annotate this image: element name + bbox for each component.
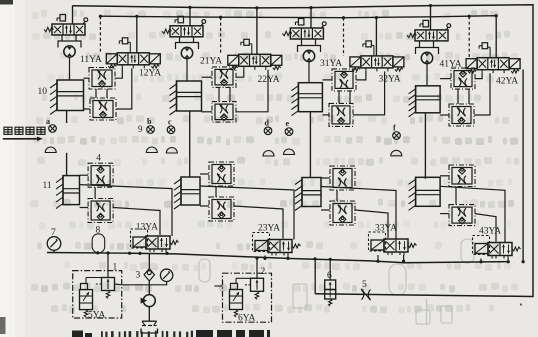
roller lever of valve V30 (321, 25, 324, 28)
caption figure number fragment (72, 331, 83, 337)
suction filter (142, 320, 157, 322)
wire drop to valve group 3 (310, 8, 312, 28)
cylinder cyl2l (181, 177, 200, 205)
svg-text:11YA: 11YA (80, 55, 102, 65)
wire cyl port top 2 (200, 173, 209, 175)
port stubs of valve 13YA (149, 249, 151, 252)
test point f (393, 132, 401, 140)
svg-text:12YA: 12YA (139, 69, 161, 79)
input arrow (3, 138, 37, 140)
right solenoid of valve 11/12YA (149, 54, 160, 64)
one-way throttle valve TB4c (449, 165, 475, 187)
wire between throttles 3l (336, 190, 338, 201)
dashed pilot box of valve 33YA (369, 232, 386, 251)
wire throttle to valve 1 (113, 208, 160, 236)
dashed pilot wire (220, 17, 222, 54)
wire cyl port top 4 (440, 175, 449, 177)
wire between throttles 4l (455, 187, 457, 205)
unloading valve group 1 box (73, 271, 122, 318)
wire group2 left stub (215, 285, 223, 287)
wire accumulator stub (98, 252, 100, 254)
right solenoid of valve 31/32YA (393, 57, 404, 67)
svg-text:32YA: 32YA (379, 75, 401, 85)
wire drop to valve group 1 (72, 6, 74, 25)
drill unit dome (166, 148, 177, 154)
hydraulic motor M4 (421, 52, 432, 63)
wire between throttles 1 (95, 89, 97, 98)
test point b (147, 126, 155, 134)
wire cylinder to valve 4 (440, 186, 505, 242)
wire throttle2 to cylinder 2 (202, 111, 213, 113)
dashed pilot box of valve 43YA (473, 236, 490, 255)
piston rod station 1 (66, 111, 68, 124)
one-way throttle valve TB2b (212, 102, 236, 123)
spring of valve V20 (162, 29, 172, 33)
spring of valve V30 (282, 31, 292, 35)
bracket of M2 (179, 37, 181, 43)
spindle line station 1 (69, 57, 71, 80)
wire throttle2 to cylinder 4 (440, 114, 449, 116)
wire throttle1 to cylinder 1 (84, 77, 90, 79)
solenoid valve 6YA (230, 290, 243, 310)
spring of valve 33YA (408, 244, 417, 248)
caption stroke fragments (101, 331, 103, 337)
check valve 3 (144, 269, 154, 281)
wire bottom bus (47, 253, 509, 263)
cylinder cyl4l (416, 177, 441, 206)
spring of valve 23YA (292, 244, 301, 248)
valve drops to bus 4 (480, 259, 482, 262)
solenoid valve 5YA (80, 290, 93, 310)
wire cyl port top 1 (80, 174, 89, 176)
dashed pilot wire (99, 16, 101, 53)
port stubs of valve 33YA (387, 252, 389, 255)
scan artifact bottom-left (0, 317, 6, 334)
right solenoid of valve 41/42YA (509, 59, 520, 69)
svg-text:5: 5 (362, 280, 367, 290)
pilot box above valve 21/22YA (244, 39, 250, 45)
wire cylinder to valve 3 (321, 187, 396, 240)
pilot relief valve in group 2 (251, 278, 264, 291)
cylinder cyl3l (302, 178, 321, 207)
pressure reducing valve 6 (329, 259, 331, 280)
springs of valve 31/32YA (352, 68, 360, 72)
wire cylinder to valve 2 (200, 186, 294, 240)
drill unit dome (45, 147, 56, 153)
port stubs of valve 21/22YA (243, 66, 245, 69)
wire gauge 7 stub (53, 250, 55, 252)
svg-text:13YA: 13YA (136, 223, 158, 233)
wire between throttles 2l (215, 186, 217, 197)
valve 33YA body (384, 239, 408, 252)
wire throttle to valve 3 (353, 71, 385, 115)
one-way throttle valve TB3c (330, 166, 355, 190)
mount hatching of cylinder cyl3l (301, 178, 303, 207)
pilot box V20 (178, 16, 184, 23)
port stubs of valve 31/32YA (365, 68, 367, 71)
svg-text:43YA: 43YA (479, 227, 501, 237)
valve drops to bus 3 (377, 255, 379, 261)
wire throttle to valve 4 (474, 73, 490, 115)
wire throttle to valve 3 (355, 210, 388, 238)
scan artifact top-left (0, 0, 13, 5)
svg-text:d: d (265, 118, 270, 127)
pressure gauge 7 (47, 237, 61, 251)
throttle valve 5 (362, 290, 364, 300)
pilot box V40 (423, 20, 429, 27)
left solenoid of valve 21/22YA (228, 55, 239, 65)
svg-text:c: c (168, 117, 172, 126)
hydraulic motor M3 (303, 50, 314, 61)
one-way throttle valve TB4d (449, 205, 475, 226)
spindle line station 4 (426, 64, 428, 86)
test point d (264, 127, 272, 135)
svg-text:42YA: 42YA (496, 77, 518, 87)
tank symbol (141, 329, 158, 334)
wire group1 output (122, 284, 150, 286)
bracket of M1 (61, 35, 63, 41)
wire cyl port bottom 4 (440, 213, 449, 215)
valve V20 (manual 4/3) (170, 26, 203, 37)
one-way throttle valve TB3d (330, 201, 355, 225)
port stubs of valve 11/12YA (121, 65, 123, 68)
wire solenoid supply drop (256, 8, 258, 54)
relief valve group 2 box (223, 273, 272, 322)
drill unit dome (263, 151, 274, 156)
port stubs of valve 23YA (271, 253, 273, 256)
spring of valve 43YA (512, 247, 521, 251)
spring of valve 13YA (170, 241, 179, 245)
label copper pipe input (blob glyphs) (4, 127, 12, 134)
one-way throttle valve TB1d (88, 199, 113, 223)
springs of valve 11/12YA (108, 65, 116, 69)
mount hatching of cylinder 11 (62, 176, 64, 205)
accumulator 8 (92, 234, 105, 253)
valve 43YA body (488, 243, 512, 256)
wire solenoid supply drop (375, 18, 377, 56)
roller lever of valve V20 (201, 23, 204, 26)
drill unit dome (391, 150, 402, 156)
svg-text:22YA: 22YA (258, 75, 280, 85)
svg-text:9: 9 (138, 124, 143, 134)
bracket of M4 (419, 42, 421, 48)
wire to bottom border (314, 259, 316, 294)
solenoid of valve 33YA (371, 240, 384, 250)
one-way throttle valve TB1b (90, 98, 116, 120)
spindle line station 2 (186, 59, 188, 81)
pressure gauge g2 (160, 269, 172, 281)
wire throttle to valve 2 (234, 206, 283, 239)
one-way throttle valve TB4b (449, 104, 474, 126)
svg-text:6YA: 6YA (238, 314, 256, 324)
svg-text:3: 3 (136, 271, 141, 281)
port stubs of valve 41/42YA (481, 70, 483, 73)
hydraulic motor M1 (64, 46, 75, 57)
one-way throttle valve TB1a (89, 68, 115, 90)
mount hatching of cylinder cyl4l (415, 177, 417, 206)
cylinder cyl4u (416, 86, 441, 113)
pilot box above valve 31/32YA (366, 41, 372, 47)
cylinder 11 (63, 176, 80, 205)
wire top bus B (100, 16, 496, 18)
bracket of M3 (301, 40, 303, 46)
one-way throttle valve TB2c (209, 162, 234, 186)
wire group2 to bus (256, 258, 258, 278)
wire solenoid supply drop (495, 16, 497, 58)
hydraulic motor M2 (181, 47, 192, 58)
wire group1 to bus (107, 253, 109, 278)
right solenoid of valve 21/22YA (271, 55, 282, 65)
valve 13YA body (146, 236, 170, 249)
pilot relief valve in group 1 (102, 278, 115, 291)
valve 41/42YA body (477, 58, 509, 70)
wire solenoid supply drop (136, 16, 138, 53)
valve V40 (manual 4/3) (415, 30, 448, 41)
wire throttle2 to cylinder 1 (84, 108, 91, 110)
svg-text:21YA: 21YA (200, 57, 222, 67)
springs of valve 41/42YA (468, 69, 476, 73)
svg-text:11: 11 (43, 181, 52, 191)
svg-text:f: f (393, 123, 396, 132)
svg-text:7: 7 (51, 228, 56, 238)
wire drop to valve group 4 (430, 6, 432, 30)
mount hatching of cylinder 10 (56, 80, 58, 111)
spring of valve V40 (407, 33, 417, 37)
spring of valve V10 (44, 27, 54, 31)
svg-text:33YA: 33YA (375, 224, 397, 234)
wire between throttles 4 (457, 89, 459, 104)
valve V10 (manual 4/3) (52, 24, 85, 35)
wire valve A to throttle 1 (115, 68, 122, 78)
wire throttle1 to cylinder 2 (202, 76, 213, 78)
valve 31/32YA body (361, 56, 393, 68)
piston rod station 2 (189, 111, 191, 177)
spindle line station 3 (308, 62, 310, 83)
one-way throttle valve TB4a (451, 68, 475, 89)
wire group1 internal (85, 278, 87, 284)
wire cyl port bottom 2 (200, 205, 209, 207)
wire between throttles 1l (94, 187, 96, 198)
dashed pilot box of valve 13YA (131, 229, 148, 248)
wire throttle2 to cylinder 3 (322, 114, 329, 116)
wire right supply vertical (522, 70, 524, 262)
svg-text:1: 1 (113, 263, 118, 273)
solenoid of valve 13YA (133, 237, 146, 247)
dashed pilot box of valve 23YA (253, 233, 270, 252)
wire pump riser mid (148, 281, 150, 295)
mount hatching of cylinder cyl4u (415, 86, 417, 113)
dashed pilot wire (468, 16, 470, 58)
wire throttle to valve 4 (475, 214, 496, 242)
svg-text:4: 4 (96, 154, 101, 164)
pilot box V10 (60, 15, 66, 22)
drill unit dome (284, 149, 295, 155)
pump outlet line (148, 307, 150, 322)
svg-text:5YA: 5YA (88, 311, 106, 321)
cylinder 10 (57, 80, 84, 111)
test point c (167, 126, 175, 134)
wire cyl port bottom 3 (321, 209, 330, 211)
caption block fragments (196, 330, 213, 337)
pump (143, 295, 155, 307)
wire throttle1 to cylinder 4 (440, 78, 451, 80)
cylinder cyl3u (298, 83, 322, 112)
junction dots on bottom bus (96, 251, 99, 254)
valve drops to bus 1 (139, 252, 141, 253)
svg-text:23YA: 23YA (258, 224, 280, 234)
valve V30 (manual 4/3) (290, 28, 323, 39)
pilot box above valve 11/12YA (122, 38, 128, 44)
one-way throttle valve TB3b (329, 103, 353, 126)
test point e (285, 128, 293, 136)
svg-text:2: 2 (261, 267, 266, 277)
wire cyl port top 3 (321, 177, 330, 179)
left solenoid of valve 11/12YA (106, 54, 117, 64)
mount hatching of cylinder cyl2u (176, 81, 178, 111)
mount hatching of cylinder cyl3u (297, 83, 299, 112)
one-way throttle valve TB2d (209, 197, 234, 221)
svg-text:a: a (46, 117, 50, 126)
wire between throttles 2 (218, 87, 220, 101)
roller lever of valve V40 (446, 27, 449, 30)
test point a (49, 125, 57, 133)
ghost figure outlines (decorative) (199, 239, 474, 325)
svg-text:8: 8 (96, 226, 101, 236)
springs of valve 21/22YA (230, 66, 238, 70)
pilot box above valve 41/42YA (482, 43, 488, 49)
svg-text:e: e (286, 119, 290, 128)
left solenoid of valve 31/32YA (350, 57, 361, 67)
wire cylinder to valve 1 (80, 185, 173, 236)
wire valve A to throttle 2 (236, 69, 244, 77)
wire throttle to valve 1 (116, 68, 132, 109)
svg-text:6: 6 (327, 271, 332, 281)
scan speck near border (520, 303, 522, 305)
roller lever of valve V10 (83, 21, 86, 24)
valve 21/22YA body (239, 54, 271, 66)
pilot box V30 (298, 19, 304, 26)
port stubs of valve 43YA (491, 256, 493, 259)
svg-text:b: b (147, 117, 152, 126)
piston rod station 3 (309, 112, 311, 178)
wire gauge2 stub (149, 282, 166, 285)
one-way throttle valve TB1c (88, 163, 113, 187)
valve drops to bus 2 (264, 256, 266, 259)
left solenoid of valve 41/42YA (466, 59, 477, 69)
cylinder cyl2u (177, 81, 202, 111)
wire pump riser upper (148, 253, 150, 268)
wire top bus A (73, 5, 534, 297)
wire drop to valve group 2 (189, 7, 191, 25)
wire valve A to throttle 3 (356, 71, 366, 80)
one-way throttle valve TB2a (212, 67, 236, 88)
mount hatching of cylinder cyl2l (180, 177, 182, 205)
one-way throttle valve TB3a (332, 69, 356, 91)
wire throttle1 to cylinder 3 (322, 79, 332, 81)
drill unit dome (146, 147, 157, 153)
dashed pilot wire (343, 18, 345, 56)
valve 23YA body (268, 240, 292, 253)
valve 11/12YA body (117, 53, 149, 65)
svg-text:10: 10 (38, 87, 48, 97)
wire valve A to throttle 4 (475, 73, 482, 79)
wire between throttles 3 (338, 91, 340, 104)
wire cyl port bottom 1 (80, 207, 89, 209)
wire throttle to valve 2 (236, 70, 268, 112)
wire group2 internal (235, 278, 237, 283)
solenoid of valve 43YA (475, 244, 488, 254)
piston rod station 4 (424, 113, 426, 179)
svg-text:31YA: 31YA (320, 59, 342, 69)
solenoid of valve 23YA (255, 241, 268, 251)
